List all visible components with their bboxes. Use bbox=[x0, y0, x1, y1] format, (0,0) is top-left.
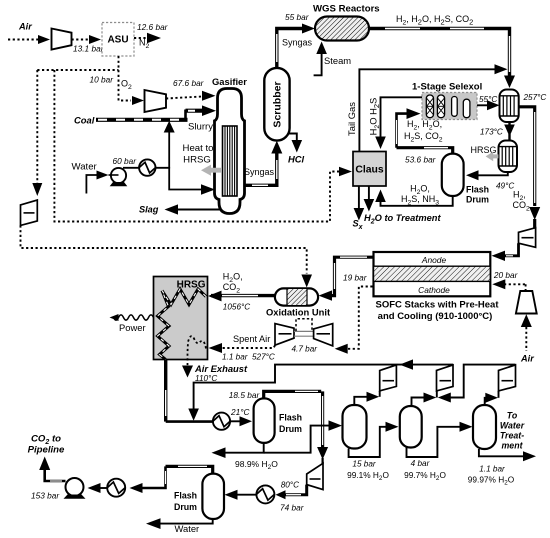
gas turbine GT pair: left trapezoid bbox=[275, 324, 294, 346]
arrow: N2 out bbox=[147, 33, 161, 43]
label: Syngas (scrubber) bbox=[282, 38, 313, 48]
expander T3 (74 bar) bbox=[307, 463, 323, 489]
label: 12.6 bar bbox=[137, 22, 169, 32]
arrow: slurry into gasifier bbox=[202, 105, 216, 116]
svg-text:Drum: Drum bbox=[466, 195, 489, 205]
label: To Water Treatment bbox=[500, 411, 525, 451]
power squiggle out of HRSG bbox=[110, 314, 154, 321]
arrow: air up into cone bbox=[521, 314, 532, 327]
wire: O2 compressed to gasifier dashed bbox=[166, 97, 202, 99]
svg-text:To: To bbox=[507, 411, 518, 421]
wire: T3 out to cooler E5 bbox=[284, 485, 307, 495]
wire: anode exhaust to oxidation unit bbox=[331, 257, 374, 295]
svg-text:1.1 bar: 1.1 bar bbox=[222, 353, 248, 362]
wire: FD2 bottoms to 15bar drum bbox=[264, 426, 329, 453]
arrow: steam into WGS bbox=[316, 42, 327, 55]
svg-text:55°C: 55°C bbox=[479, 95, 497, 104]
svg-text:Tail Gas: Tail Gas bbox=[346, 102, 357, 136]
label: Air (right) bbox=[520, 354, 534, 364]
reactor: WGS vessel bbox=[315, 17, 369, 41]
wire: WGS product header bbox=[369, 29, 510, 77]
svg-text:Anode: Anode bbox=[421, 255, 447, 265]
wire: FD2 vapor header bbox=[264, 391, 322, 398]
exchanger E3 (heat to HRSG) bbox=[499, 141, 518, 173]
svg-text:SOFC Stacks with Pre-Heat: SOFC Stacks with Pre-Heat bbox=[375, 300, 499, 311]
expander T2 (fuel letdown) bbox=[519, 228, 536, 248]
label: 1-Stage Selexol bbox=[412, 82, 482, 93]
label: Air Exhaust bbox=[194, 363, 248, 383]
arrow: HCl down bbox=[292, 140, 303, 153]
svg-text:53.6 bar: 53.6 bar bbox=[405, 155, 437, 165]
label: Water bbox=[72, 162, 98, 173]
arrow: fuel down to expander bbox=[529, 207, 540, 220]
grey arrow: gasifier heat to HRSG bbox=[201, 165, 222, 176]
vessel: drum D15 (15 bar) bbox=[343, 405, 367, 449]
svg-text:Air Exhaust: Air Exhaust bbox=[194, 363, 248, 374]
svg-text:Power: Power bbox=[119, 322, 146, 333]
arrow: air exhaust down bbox=[182, 366, 193, 378]
wire: E2 bottom to E3 bbox=[508, 122, 510, 141]
label: H2O CO2 (to HRSG) bbox=[223, 272, 243, 295]
wire: FD2 bottoms down bbox=[225, 443, 264, 453]
label: 10 bar bbox=[89, 75, 114, 85]
label: H2O to Treatment bbox=[364, 213, 441, 225]
arrow: slag out bbox=[165, 204, 179, 214]
wire: cooler to flash drum FD2 bbox=[230, 420, 240, 422]
svg-text:1056°C: 1056°C bbox=[223, 303, 250, 312]
arrow: water out left bbox=[146, 518, 161, 529]
svg-text:Flash: Flash bbox=[279, 413, 302, 423]
svg-text:Slurry: Slurry bbox=[188, 122, 213, 133]
air intake cone bbox=[516, 291, 537, 314]
cooler E5 (80C) bbox=[256, 485, 274, 503]
label: 60 bar bbox=[113, 156, 138, 166]
svg-text:ASU: ASU bbox=[107, 35, 128, 46]
wire: slag line bbox=[177, 209, 221, 211]
arrow: into 15 bar drum bbox=[329, 420, 343, 430]
wire: O2 branch to expander dashed bbox=[36, 70, 38, 184]
svg-text:80°C: 80°C bbox=[281, 481, 299, 490]
wire: steam to cooler E4 bbox=[166, 420, 213, 423]
compressor C2 (4 bar vapor) bbox=[437, 365, 454, 391]
grey arrow: heat to HRSG (right) bbox=[486, 152, 499, 162]
arrow: clean syngas into E2 bbox=[487, 100, 500, 110]
label: 1.1 bar 527C bbox=[222, 353, 275, 362]
wire: syngas scrubber to WGS bbox=[277, 29, 303, 68]
label: Steam bbox=[324, 55, 351, 66]
wire: compressor to ASU dashed bbox=[72, 39, 90, 41]
cooler E4 (21C) bbox=[213, 413, 230, 430]
svg-text:Cathode: Cathode bbox=[418, 285, 450, 295]
svg-text:74 bar: 74 bar bbox=[280, 503, 305, 513]
arrow: vapor into C2 bbox=[424, 393, 437, 403]
vessel: scrubber bbox=[264, 68, 289, 141]
svg-text:20 bar: 20 bar bbox=[493, 270, 519, 280]
svg-text:Syngas: Syngas bbox=[244, 167, 275, 177]
label: 257C bbox=[523, 93, 547, 102]
svg-text:60 bar: 60 bar bbox=[113, 156, 138, 166]
wire: water up to slurry junction bbox=[168, 131, 170, 169]
arrow: condensate flows left bbox=[400, 359, 414, 369]
svg-text:Oxidation Unit: Oxidation Unit bbox=[266, 307, 330, 318]
arrow: O2 into Claus bbox=[339, 167, 352, 177]
wire: air dashed inlet bbox=[8, 39, 39, 41]
arrow: water into pump bbox=[97, 171, 109, 180]
wire: cooler to CO2 pump bbox=[100, 487, 107, 489]
label: Syngas (gasifier) bbox=[244, 167, 275, 177]
arrow: syngas into WGS bbox=[302, 24, 315, 34]
arrow: anode exhaust into oxidation unit bbox=[319, 290, 333, 300]
svg-text:Coal: Coal bbox=[74, 115, 95, 126]
wire: O2 branch header dashed bbox=[37, 69, 118, 71]
wire: O2 to oxidation unit dashed (down+right) bbox=[21, 225, 307, 273]
wire: tail gas recycle bbox=[359, 69, 495, 151]
arrow: syngas down into exchanger E2 bbox=[504, 76, 515, 89]
wire: water to gasifier bbox=[156, 168, 202, 190]
wire: C3 discharge to C2 suction bbox=[450, 365, 516, 398]
label: 55C bbox=[479, 95, 497, 104]
arrow: into Claus bottom bbox=[375, 190, 386, 203]
unit: HRSG box bbox=[154, 277, 208, 360]
label: 53.6 bar bbox=[405, 155, 437, 165]
arrow: into cooler E5 bbox=[276, 490, 286, 499]
svg-text:Scrubber: Scrubber bbox=[272, 81, 284, 127]
label: Oxidation Unit bbox=[266, 307, 330, 318]
label: 173C bbox=[480, 128, 503, 137]
label: 98.9% H2O bbox=[235, 459, 278, 471]
wire: water inlet bbox=[86, 175, 97, 194]
arrow: condensate joins steam line bbox=[188, 409, 199, 421]
pump P2 (CO2 pipeline) bbox=[64, 478, 86, 499]
wire: sulfur out bbox=[358, 186, 360, 209]
wire: 257C fuel to SOFC down right side bbox=[519, 107, 535, 229]
label: Slurry bbox=[188, 122, 213, 133]
exchanger E2 (syngas preheat) bbox=[500, 90, 519, 123]
wire: ambient air dashed bbox=[525, 327, 527, 351]
arrow: O2 into expander T0 bbox=[32, 183, 42, 196]
arrow: water into coal line bbox=[164, 121, 175, 133]
svg-text:4 bar: 4 bar bbox=[411, 459, 430, 468]
label: HRSG (right exchanger) bbox=[470, 145, 496, 155]
arrow: 173C down bbox=[504, 125, 515, 137]
label: 19 bar bbox=[343, 273, 368, 283]
label: Flash Drum (FD3) bbox=[174, 491, 197, 513]
label: Gasifier bbox=[212, 76, 247, 87]
label: 20 bar bbox=[493, 270, 519, 280]
wire: D15 vapor to C1 bbox=[354, 391, 379, 405]
wire: steam stub bbox=[314, 53, 322, 75]
svg-text:15 bar: 15 bar bbox=[352, 460, 375, 469]
label: 153 bar bbox=[31, 491, 60, 501]
wire: syngas gasifier to scrubber bbox=[245, 152, 277, 185]
wire: pump to heat exchanger bbox=[123, 167, 140, 169]
label: H2O H2S NH3 bbox=[401, 184, 439, 207]
label: Tail Gas (rotated) bbox=[346, 102, 357, 136]
svg-text:Water: Water bbox=[72, 162, 98, 173]
label: 67.6 bar bbox=[173, 78, 205, 88]
svg-text:10 bar: 10 bar bbox=[89, 75, 114, 85]
label: N2 bbox=[139, 38, 150, 50]
arrow: syngas into scrubber bbox=[271, 141, 282, 154]
expander T0 (O2 letdown) bbox=[21, 200, 38, 225]
label: Heat to HRSG bbox=[183, 143, 214, 166]
wire: cathode air inlet dashed bbox=[504, 284, 526, 290]
gas turbine GT: shaft + dashed box bbox=[294, 319, 314, 336]
svg-text:Steam: Steam bbox=[324, 55, 351, 66]
wire: coal striped line bbox=[96, 110, 203, 122]
arrow: hot gas into HRSG bbox=[208, 291, 222, 302]
wire: FD1 bottoms to Claus bbox=[381, 196, 453, 206]
label: H2 H2O H2S CO2 (selexol feed) bbox=[404, 119, 443, 143]
wire: D4 vapor to C2 bbox=[412, 391, 437, 406]
compressor C3 (1.1 bar vapor) bbox=[499, 365, 516, 391]
svg-text:173°C: 173°C bbox=[480, 128, 503, 137]
wire: claus water out bbox=[368, 186, 370, 200]
label: Water (bottom) bbox=[175, 523, 200, 534]
wire: D4 bottoms to D11 bbox=[407, 427, 461, 457]
svg-text:Water: Water bbox=[175, 523, 200, 534]
svg-text:257°C: 257°C bbox=[523, 93, 547, 102]
label: 4.7 bar bbox=[292, 345, 318, 354]
label: Slag bbox=[139, 205, 159, 215]
wire: D11 vapor to C3 bbox=[485, 391, 499, 405]
arrow: 98.9% H2O out left bbox=[212, 447, 226, 458]
label: 55 bar bbox=[285, 12, 310, 22]
arrow: CO2 into cooler E6 bbox=[130, 483, 143, 493]
label: 13.1 bar bbox=[73, 44, 105, 54]
HRSG spent air dashed squiggle bbox=[188, 336, 207, 366]
gas turbine GT: right trapezoid bbox=[314, 324, 333, 346]
label: 18.5 bar bbox=[229, 390, 261, 400]
wire: FD3 bottoms water out bbox=[160, 519, 213, 524]
svg-text:WGS Reactors: WGS Reactors bbox=[313, 4, 380, 15]
arrow: recycle into C2 junction bbox=[438, 393, 451, 403]
wire: cathode spent air dashed to turbine bbox=[347, 287, 373, 349]
vessel: gasifier bbox=[215, 89, 245, 214]
arrow: into CO2 pump bbox=[88, 483, 101, 493]
wire: FD3 vapor to CO2 compression bbox=[142, 466, 213, 488]
svg-text:67.6 bar: 67.6 bar bbox=[173, 78, 205, 88]
arrow: Sx down bbox=[354, 208, 365, 221]
arrow: into FD2 bbox=[240, 416, 253, 426]
svg-text:1-Stage Selexol: 1-Stage Selexol bbox=[412, 82, 482, 93]
label: SOFC caption bbox=[375, 300, 499, 323]
wire: oxidation unit to HRSG bbox=[211, 294, 275, 297]
arrow: into FD1 bbox=[466, 170, 479, 180]
svg-text:Air: Air bbox=[18, 22, 32, 32]
label: WGS Reactors bbox=[313, 4, 380, 15]
svg-text:21°C: 21°C bbox=[230, 407, 251, 417]
vessel: flash drum FD1 (acid gas) bbox=[442, 154, 464, 196]
arrow: air into cathode bbox=[492, 279, 505, 289]
arrow: H2O to treatment down bbox=[364, 199, 375, 212]
wire: H2O H2S selexol to claus bbox=[381, 97, 423, 137]
arrow: O2 into compressor K2 bbox=[132, 96, 144, 105]
arrow: spent air into HRSG bbox=[209, 343, 223, 353]
svg-text:Treat-: Treat- bbox=[500, 431, 524, 441]
label: H2O H2S (rotated) bbox=[367, 98, 381, 136]
wire: HCl from scrubber bbox=[289, 134, 297, 142]
compressor K1 (air) bbox=[52, 29, 72, 50]
wire: N2 out dashed bbox=[134, 37, 148, 39]
label: 1.1 bar / 99.97% H2O bbox=[468, 465, 515, 487]
label: 49C bbox=[496, 182, 514, 191]
wire: O2 branch to Claus dashed bbox=[54, 70, 339, 222]
svg-text:55 bar: 55 bar bbox=[285, 12, 310, 22]
svg-text:Slag: Slag bbox=[139, 205, 159, 215]
label: 21C bbox=[230, 407, 251, 417]
wire: condensate return header bbox=[194, 365, 453, 409]
vessel: drum D11 (1.1 bar) bbox=[473, 405, 496, 449]
svg-text:Spent Air: Spent Air bbox=[233, 334, 270, 344]
arrow: vapor into C1 bbox=[367, 392, 380, 402]
label: Flash Drum (FD2) bbox=[279, 413, 302, 435]
unit ASU (dashed box) bbox=[102, 23, 134, 57]
wire: CO2 to pipeline bbox=[45, 470, 66, 481]
label: H2 CO2 (right) bbox=[513, 190, 531, 213]
wire: D15 bottoms to D4 bbox=[349, 427, 386, 457]
vessel: flash drum FD3 (CO2) bbox=[202, 474, 224, 519]
wire: flash drum vapor to selexol bbox=[397, 114, 453, 154]
vessel: flash drum FD2 (18.5 bar) bbox=[254, 398, 275, 443]
svg-text:Syngas: Syngas bbox=[282, 38, 313, 48]
wire: selexol to exchanger E2 bbox=[477, 104, 488, 106]
arrow: O2 into gasifier bbox=[202, 91, 216, 101]
svg-text:527°C: 527°C bbox=[252, 353, 275, 362]
label: 4 bar / 99.7% H2O bbox=[404, 459, 446, 482]
arrow: spent air into turbine GT bbox=[335, 344, 348, 354]
compressor C1 (15 bar vapor) bbox=[380, 365, 397, 391]
svg-text:13.1 bar: 13.1 bar bbox=[73, 44, 105, 54]
wire: HRSG steam down bbox=[164, 360, 167, 422]
arrow: into selexol bbox=[407, 108, 421, 119]
svg-text:1.1 bar: 1.1 bar bbox=[479, 465, 505, 474]
unit: Selexol (grey box with columns) bbox=[422, 93, 477, 120]
arrow: into D11 bbox=[460, 422, 473, 432]
unit: oxidation unit bbox=[275, 288, 318, 305]
svg-text:Gasifier: Gasifier bbox=[212, 76, 247, 87]
vessel: drum D4 (4 bar) bbox=[400, 406, 422, 448]
pump P1 (water) bbox=[109, 168, 128, 186]
wire: spent air to HRSG dashed bbox=[222, 345, 275, 348]
arrow: to water treatment bbox=[523, 451, 536, 461]
cooler E6 bbox=[107, 479, 125, 497]
unit: Claus bbox=[353, 152, 386, 187]
svg-text:Flash: Flash bbox=[174, 491, 197, 501]
label: Power bbox=[119, 322, 146, 333]
label: 1056C bbox=[223, 303, 250, 312]
wire: D11 bottoms to water treatment bbox=[479, 449, 523, 456]
wire: fuel to anode bbox=[504, 243, 519, 256]
arrow: vapor down into T3 bbox=[317, 447, 328, 460]
svg-text:HRSG: HRSG bbox=[183, 155, 211, 166]
wire: E3 to flash drum FD1 bbox=[478, 172, 508, 176]
HRSG steam coil zigzag bbox=[158, 289, 207, 360]
arrow: into FD3 bbox=[225, 490, 238, 500]
svg-text:HCl: HCl bbox=[288, 154, 305, 165]
svg-text:Pipeline: Pipeline bbox=[28, 445, 65, 456]
wire: O2 from ASU down bbox=[119, 56, 132, 101]
arrow: CO2 up to pipeline bbox=[39, 457, 50, 471]
arrow: water into gasifier bottom bbox=[201, 184, 215, 195]
label: HCl bbox=[288, 154, 305, 165]
svg-text:153 bar: 153 bar bbox=[31, 491, 60, 501]
label: O2 bbox=[121, 79, 132, 91]
svg-text:and Cooling (910-1000°C): and Cooling (910-1000°C) bbox=[378, 311, 493, 322]
label: H2 H2O H2S CO2 (top) bbox=[396, 14, 473, 27]
arrow: fuel into anode bbox=[492, 251, 506, 261]
label: 15 bar / 99.1% H2O bbox=[347, 460, 389, 483]
svg-text:Heat to: Heat to bbox=[183, 143, 214, 154]
svg-text:ment: ment bbox=[501, 441, 523, 451]
wire: vapor down to expander T3 bbox=[321, 391, 324, 464]
wire: cooler to flash drum FD3 bbox=[237, 494, 256, 496]
label: Spent Air bbox=[233, 334, 270, 344]
arrow: tail gas joins syngas bbox=[495, 64, 508, 74]
arrow: O2 into oxidation unit top bbox=[301, 275, 312, 288]
svg-text:18.5 bar: 18.5 bar bbox=[229, 390, 261, 400]
arrow: air into compressor bbox=[38, 35, 50, 44]
label: CO2 to Pipeline bbox=[28, 434, 65, 456]
label: Sx bbox=[353, 219, 364, 231]
compressor K2 (O2) bbox=[145, 90, 167, 112]
svg-text:4.7 bar: 4.7 bar bbox=[292, 345, 318, 354]
arrow: vapor into C3 bbox=[485, 393, 498, 403]
svg-text:Claus: Claus bbox=[355, 165, 384, 176]
svg-text:Air: Air bbox=[520, 354, 534, 364]
arrow: into ASU bbox=[89, 35, 101, 44]
heat exchanger E1 (60 bar water) bbox=[139, 159, 155, 175]
svg-text:12.6 bar: 12.6 bar bbox=[137, 22, 169, 32]
cell: SOFC stack bbox=[374, 252, 491, 296]
svg-text:19 bar: 19 bar bbox=[343, 273, 368, 283]
label: Flash Drum (FD1) bbox=[466, 185, 489, 205]
svg-text:Water: Water bbox=[500, 421, 525, 431]
svg-text:Drum: Drum bbox=[279, 424, 302, 434]
svg-text:Flash: Flash bbox=[466, 185, 489, 195]
svg-text:Drum: Drum bbox=[174, 502, 197, 512]
label: Air feed bbox=[18, 22, 32, 32]
arrow: into D4 bbox=[386, 422, 399, 432]
label: 80C 74 bar bbox=[280, 481, 305, 513]
label: Coal bbox=[74, 115, 95, 126]
arrow: H2O H2S into Claus bbox=[375, 137, 386, 150]
svg-text:49°C: 49°C bbox=[496, 182, 514, 191]
